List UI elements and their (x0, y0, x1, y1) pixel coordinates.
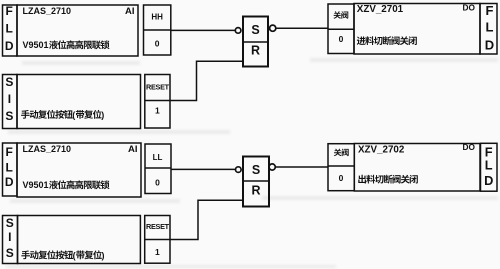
svg-text:D: D (5, 175, 14, 189)
svg-text:I: I (8, 230, 11, 244)
inversion bubble at S output (U7) (269, 164, 275, 170)
pin RESET output, value 1 (U4) (145, 75, 170, 129)
tag strip SIS (U4) (3, 75, 18, 129)
svg-text:D: D (5, 39, 14, 53)
inversion bubble at S output (U3) (270, 25, 276, 31)
tag strip FLD (U1) (3, 4, 18, 56)
svg-text:LZAS_2710: LZAS_2710 (23, 6, 72, 16)
svg-text:): ) (102, 250, 105, 260)
svg-text:0: 0 (339, 173, 344, 183)
svg-text:R: R (251, 184, 260, 198)
svg-text:L: L (6, 22, 13, 36)
label manual reset button (with reset) (21, 110, 104, 120)
svg-text:L: L (486, 20, 494, 35)
pin RESET output, value 1 (U8) (145, 216, 170, 264)
svg-text:): ) (101, 110, 104, 120)
svg-text:S: S (6, 216, 14, 230)
svg-text:V9501: V9501 (23, 180, 49, 190)
tag strip SIS (U8) (3, 216, 18, 264)
svg-text:AI: AI (128, 144, 138, 155)
svg-text:R: R (251, 44, 260, 58)
label discharge cut-off valve closed (358, 175, 366, 184)
function block U4 manual reset button (SIS) (17, 75, 141, 129)
wire RESET to R input (U7) (170, 200, 244, 239)
SR flip-flop U3 (243, 17, 268, 67)
svg-text:(: ( (73, 250, 76, 260)
function block U6 XZV_2702 DO output (354, 144, 480, 192)
svg-text:AI: AI (125, 6, 135, 17)
svg-text:LL: LL (153, 153, 163, 162)
svg-text:(: ( (72, 110, 75, 120)
tag strip FLD (U2) (480, 3, 497, 54)
svg-text:F: F (6, 4, 13, 18)
svg-text:RESET: RESET (146, 222, 170, 231)
svg-text:D: D (485, 38, 494, 53)
svg-text:XZV_2702: XZV_2702 (358, 144, 405, 155)
function block U5 LZAS_2710 AI input (row 2) (17, 143, 141, 197)
pin LL output, value 0 (U5) (145, 144, 171, 194)
svg-text:HH: HH (151, 12, 163, 21)
tag strip FLD (U5) (3, 143, 18, 196)
svg-text:0: 0 (155, 39, 160, 49)
svg-text:S: S (252, 163, 260, 177)
label manual reset button (with reset) row 2 (21, 250, 104, 260)
svg-text:S: S (251, 23, 259, 37)
svg-text:S: S (5, 109, 13, 123)
svg-text:RESET: RESET (146, 82, 170, 91)
SR flip-flop U7 (243, 157, 269, 207)
wire HH to S input (171, 29, 236, 31)
svg-text:XZV_2701: XZV_2701 (357, 4, 404, 15)
label V9501 liquid-level high-high interlock (23, 40, 110, 50)
tag strip FLD (U6) (481, 143, 498, 191)
svg-text:L: L (6, 161, 13, 175)
svg-text:0: 0 (155, 178, 160, 188)
inversion bubble at S input (U7) (236, 167, 242, 173)
svg-text:1: 1 (155, 106, 160, 116)
pin HH output, value 0 (U1) (144, 5, 171, 55)
svg-text:F: F (6, 145, 13, 159)
svg-text:DO: DO (463, 142, 476, 152)
label feed cut-off valve closed (357, 36, 366, 45)
svg-text:S: S (5, 75, 13, 89)
wire RESET to R input (U3) (170, 61, 243, 100)
svg-text:LZAS_2710: LZAS_2710 (23, 144, 72, 154)
svg-text:V9501: V9501 (23, 40, 49, 50)
wire S output to XZV_2702 close-valve pin (275, 166, 328, 168)
inversion bubble at S input (U3) (235, 28, 241, 34)
svg-text:I: I (8, 92, 11, 106)
svg-text:S: S (6, 246, 14, 260)
svg-text:0: 0 (339, 34, 344, 44)
svg-text:L: L (485, 157, 493, 172)
svg-text:F: F (486, 3, 494, 18)
function block U2 XZV_2701 DO output (354, 4, 480, 55)
wire LL to S input (U7) (171, 168, 236, 170)
wire S output to XZV_2701 close-valve pin (276, 27, 328, 29)
function block U1 LZAS_2710 AI input (17, 5, 138, 56)
function block U8 manual reset button (SIS, row 2) (18, 216, 141, 264)
pin close-valve input, value 0 (XZV_2702) (328, 144, 354, 191)
pin close-valve input, value 0 (XZV_2701) (328, 4, 354, 54)
svg-text:DO: DO (463, 3, 476, 13)
svg-text:1: 1 (155, 247, 160, 257)
svg-text:D: D (484, 173, 493, 188)
label V9501 liquid-level high-high interlock (row 2) (23, 180, 110, 190)
